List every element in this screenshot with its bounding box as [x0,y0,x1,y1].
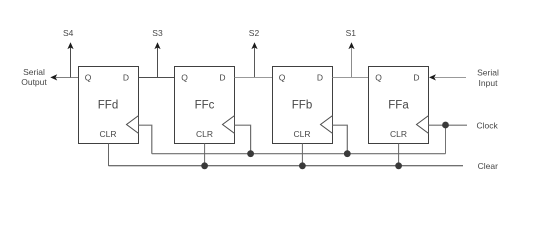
FFb body [273,67,333,144]
svg-text:CLR: CLR [293,129,310,139]
wire clock input to FFa [429,124,468,126]
wire FFc CLR pin [204,144,206,166]
wire FFb clock branch [333,125,348,154]
serial input arrowhead [429,74,436,80]
svg-text:Output: Output [21,77,47,87]
wire FFc clock branch [235,125,251,154]
svg-text:FFc: FFc [195,99,215,111]
svg-text:S4: S4 [63,28,74,38]
wire clock riser [445,125,447,154]
junction FFc clear [201,162,208,169]
svg-text:FFa: FFa [388,99,409,111]
svg-text:Q: Q [85,72,92,82]
wire clock rail [152,153,446,155]
svg-text:Q: Q [181,72,188,82]
svg-text:Serial: Serial [477,68,499,78]
wire S4 tap [70,48,72,78]
node Serial Output label [21,67,47,87]
junction clock riser [442,122,449,129]
junction FFb clear [299,162,306,169]
FFb clock input triangle [321,116,333,134]
wire FFd clock branch [139,125,152,154]
wire FFc Q to FFd D [139,77,175,79]
FFc clock input triangle [223,116,235,134]
flip-flop U3 FFc [175,67,235,144]
FFd clock input triangle [127,116,139,134]
svg-text:CLR: CLR [390,129,407,139]
S3 arrowhead [154,42,160,49]
FFd body [79,67,139,144]
FFa body [369,67,429,144]
wire S2 tap [254,48,256,78]
flip-flop U4 FFd [79,67,139,144]
S2 arrowhead [251,42,257,49]
svg-text:Q: Q [279,72,286,82]
wire FFb Q to FFc D [235,77,273,79]
wire FFd CLR pin [108,144,110,166]
wire FFd Q to serial output [56,77,79,79]
wire S1 tap [351,48,353,78]
serial output arrowhead [50,74,57,80]
FFc body [175,67,235,144]
wire FFa Q to FFb D [333,77,369,79]
svg-text:D: D [123,72,129,82]
svg-text:S3: S3 [152,28,163,38]
svg-text:S2: S2 [249,28,260,38]
junction FFc clock [247,150,254,157]
svg-text:Serial: Serial [23,67,45,77]
svg-text:Clock: Clock [477,121,499,131]
wire serial input to FFa D [435,77,466,79]
node Serial Input label [477,68,499,88]
flip-flop U1 FFa [369,67,429,144]
svg-text:FFd: FFd [98,99,118,111]
svg-text:CLR: CLR [196,129,213,139]
svg-text:CLR: CLR [99,129,116,139]
svg-text:Input: Input [479,78,499,88]
svg-text:D: D [219,72,225,82]
wire clear rail [109,165,464,167]
junction FFa clear [395,162,402,169]
FFa clock input triangle [417,116,429,134]
S4 arrowhead [67,42,73,49]
wire FFb CLR pin [301,144,303,166]
svg-text:D: D [317,72,323,82]
svg-text:S1: S1 [346,28,357,38]
wire S3 tap [157,48,159,78]
svg-text:Q: Q [375,72,382,82]
svg-text:D: D [413,72,419,82]
S1 arrowhead [348,42,354,49]
junction FFb clock [344,150,351,157]
svg-text:Clear: Clear [478,161,498,171]
flip-flop U2 FFb [273,67,333,144]
svg-text:FFb: FFb [292,99,312,111]
wire FFa CLR pin [398,144,400,166]
